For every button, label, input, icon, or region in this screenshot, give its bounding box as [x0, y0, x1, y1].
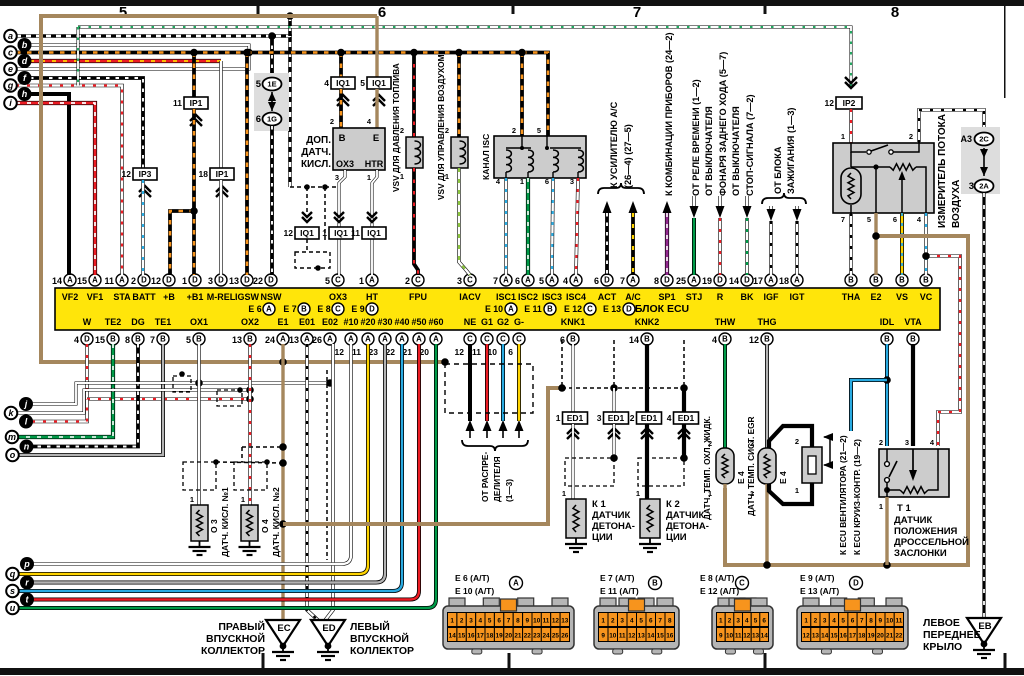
svg-text:КРЫЛО: КРЫЛО	[923, 641, 962, 653]
distributor brace	[462, 440, 528, 451]
svg-text:1: 1	[795, 486, 799, 495]
svg-text:C: C	[500, 335, 506, 344]
splice 3 ED1	[604, 412, 629, 424]
svg-text:VTA: VTA	[904, 317, 922, 327]
svg-text:КОЛЛЕКТОР: КОЛЛЕКТОР	[201, 645, 265, 657]
svg-text:4: 4	[930, 438, 935, 447]
svg-text:#60: #60	[428, 317, 443, 327]
W wire white-red	[85, 344, 89, 399]
svg-text:17: 17	[477, 633, 485, 640]
splice 12 IP3 on BATT wire	[133, 168, 157, 180]
svg-text:13: 13	[752, 633, 760, 640]
svg-text:A: A	[513, 579, 519, 588]
svg-text:15: 15	[657, 633, 665, 640]
svg-text:A: A	[549, 276, 555, 285]
svg-text:2: 2	[909, 132, 913, 141]
pin STJ top	[688, 274, 700, 286]
page frame top rule	[0, 0, 1024, 6]
svg-text:5: 5	[754, 618, 758, 625]
svg-text:THG: THG	[758, 317, 777, 327]
svg-text:p: p	[23, 559, 30, 569]
svg-text:3: 3	[823, 618, 827, 625]
pin R top	[714, 274, 726, 286]
pin VF2 top	[64, 274, 76, 286]
pin VC top	[920, 274, 932, 286]
svg-text:c: c	[8, 48, 13, 58]
EGR sensor ground brown	[765, 484, 768, 565]
splice 4 IQ1	[339, 53, 343, 78]
pin M-REL top	[215, 274, 227, 286]
svg-text:r: r	[25, 578, 29, 588]
AFM measuring cell	[841, 168, 861, 204]
IGF wire from igniter	[769, 206, 773, 209]
svg-text:ED1: ED1	[678, 413, 695, 423]
svg-text:1: 1	[450, 618, 454, 625]
svg-text:1: 1	[190, 495, 194, 504]
T1 potentiometer	[912, 449, 914, 470]
svg-text:ЛЕВОЕ: ЛЕВОЕ	[923, 617, 960, 629]
connector E 6 (А/Т)/E 10 (А/Т)	[449, 598, 465, 609]
wire i red-white to VF1	[16, 103, 95, 275]
splice 1 ED1	[563, 412, 588, 424]
KNK2 drain wire	[682, 388, 686, 412]
svg-text:1: 1	[562, 489, 566, 498]
TE2 wire to m	[18, 344, 113, 437]
OX1 wire down to O3 sensor	[197, 344, 201, 505]
svg-text:7: 7	[841, 215, 845, 224]
svg-text:12: 12	[151, 276, 161, 286]
svg-text:B: B	[110, 335, 116, 344]
svg-text:E 9 (А/Т): E 9 (А/Т)	[800, 573, 835, 583]
svg-text:ЗАСЛОНКИ: ЗАСЛОНКИ	[894, 548, 947, 559]
DG wire to n	[33, 344, 138, 447]
svg-text:G1: G1	[481, 317, 493, 327]
svg-text:5: 5	[639, 618, 643, 625]
svg-text:К 1: К 1	[592, 499, 606, 510]
svg-text:22: 22	[524, 633, 532, 640]
brown bus left loop	[41, 16, 445, 362]
wire h black to VF2	[31, 94, 69, 275]
svg-text:Т 1: Т 1	[897, 503, 911, 514]
svg-text:E 12 (А/Т): E 12 (А/Т)	[700, 586, 739, 596]
pin FPU top	[412, 274, 424, 286]
brown bus lower	[283, 388, 562, 524]
svg-text:#40: #40	[394, 317, 409, 327]
K1 shield dashed box	[565, 458, 614, 486]
svg-text:#50: #50	[411, 317, 426, 327]
node p	[20, 557, 34, 571]
node s	[6, 585, 19, 598]
splice 4 ED1	[674, 412, 699, 424]
svg-text:+B: +B	[163, 292, 175, 302]
svg-text:FPU: FPU	[409, 292, 427, 302]
svg-text:A: A	[365, 335, 371, 344]
injector wire #30	[33, 344, 385, 583]
svg-text:ДАТЧ. КИСЛ. №1: ДАТЧ. КИСЛ. №1	[220, 487, 230, 557]
svg-text:A: A	[266, 305, 272, 314]
svg-text:7: 7	[493, 276, 498, 286]
svg-text:VF1: VF1	[87, 292, 104, 302]
svg-text:11: 11	[619, 633, 626, 640]
ECU block band	[55, 288, 940, 330]
svg-text:23: 23	[533, 633, 541, 640]
svg-text:E 6: E 6	[248, 304, 261, 314]
svg-text:E 13 (А/Т): E 13 (А/Т)	[800, 586, 839, 596]
ground EC right intake manifold	[266, 620, 300, 646]
svg-text:5: 5	[360, 78, 365, 88]
svg-text:1: 1	[322, 228, 327, 238]
green dotted stub down-left	[77, 27, 80, 86]
label K USILITELYU A/C	[598, 183, 644, 194]
svg-text:ED1: ED1	[567, 413, 584, 423]
pin ISC4 top	[570, 274, 582, 286]
svg-text:D: D	[744, 276, 750, 285]
T1 ground wire brown	[885, 497, 888, 565]
svg-text:2: 2	[405, 276, 410, 286]
svg-text:A: A	[119, 276, 125, 285]
shield dashes over OX3	[290, 186, 338, 188]
svg-text:B: B	[899, 276, 905, 285]
svg-text:D: D	[192, 276, 198, 285]
svg-text:D: D	[626, 305, 632, 314]
svg-text:14: 14	[449, 633, 457, 640]
svg-text:OX1: OX1	[190, 317, 208, 327]
splice 11 IQ1	[367, 217, 377, 222]
pin HT top	[366, 274, 378, 286]
pin BK top	[741, 274, 753, 286]
G1 wire from distributor	[485, 344, 489, 421]
coolant temp sensor	[716, 448, 734, 484]
svg-text:ДОП.: ДОП.	[306, 135, 331, 146]
pin SP1 top	[661, 274, 673, 286]
right margin rule	[1004, 6, 1006, 98]
OX2 wire down to O4 sensor	[248, 344, 252, 505]
svg-text:6: 6	[545, 177, 549, 186]
node r	[20, 576, 34, 590]
svg-text:12: 12	[749, 335, 759, 345]
svg-text:E 4: E 4	[778, 471, 788, 484]
svg-text:11: 11	[472, 347, 481, 357]
svg-text:E 10: E 10	[485, 304, 503, 314]
ISC2 wire	[526, 178, 530, 275]
svg-text:B: B	[547, 305, 553, 314]
svg-text:A: A	[382, 335, 388, 344]
svg-text:КИСЛ.: КИСЛ.	[301, 159, 331, 170]
svg-text:2: 2	[814, 618, 818, 625]
E01 wire to ED ground	[307, 344, 321, 623]
svg-text:OX2: OX2	[241, 317, 259, 327]
shield dashed rail knock sensors	[562, 387, 684, 389]
svg-text:2: 2	[728, 618, 732, 625]
node d	[18, 54, 32, 68]
junction brown/E1	[279, 358, 287, 366]
EGR temp sensor	[758, 448, 776, 484]
svg-text:IP1: IP1	[216, 169, 229, 179]
svg-text:A: A	[768, 276, 774, 285]
svg-text:22: 22	[253, 276, 263, 286]
svg-text:10: 10	[533, 618, 541, 625]
svg-text:5: 5	[186, 335, 191, 345]
svg-text:TE2: TE2	[105, 317, 122, 327]
svg-text:5: 5	[119, 4, 127, 21]
svg-text:ВПУСКНОЙ: ВПУСКНОЙ	[350, 632, 409, 645]
svg-text:14: 14	[629, 335, 639, 345]
svg-text:7: 7	[633, 4, 641, 21]
node k	[5, 407, 18, 420]
wire g white-red to STA	[16, 86, 122, 276]
svg-text:E 4: E 4	[736, 471, 746, 484]
svg-text:ДРОССЕЛЬНОЙ: ДРОССЕЛЬНОЙ	[894, 536, 969, 548]
pin IGSW top	[241, 274, 253, 286]
svg-text:8: 8	[516, 618, 520, 625]
svg-text:12: 12	[825, 98, 835, 108]
svg-text:OX3: OX3	[329, 292, 347, 302]
svg-text:А3: А3	[960, 134, 972, 144]
svg-text:IACV: IACV	[459, 292, 481, 302]
svg-text:12: 12	[552, 618, 560, 625]
svg-text:A: A	[369, 276, 375, 285]
svg-text:К КОМБИНАЦИИ ПРИБОРОВ (24—2): К КОМБИНАЦИИ ПРИБОРОВ (24—2)	[664, 32, 674, 196]
svg-text:+B1: +B1	[187, 292, 204, 302]
svg-text:13: 13	[812, 633, 820, 640]
svg-text:12: 12	[284, 228, 294, 238]
wire j white to OX1/E02	[32, 383, 330, 404]
svg-text:VSV ДЛЯ УПРАВЛЕНИЯ ВОЗДУХОМ: VSV ДЛЯ УПРАВЛЕНИЯ ВОЗДУХОМ	[436, 54, 446, 200]
svg-text:m: m	[8, 432, 16, 442]
pin OX3 top	[332, 274, 344, 286]
svg-text:11: 11	[351, 228, 360, 238]
svg-text:21: 21	[514, 633, 522, 640]
svg-text:NE: NE	[464, 317, 477, 327]
svg-text:C: C	[415, 276, 421, 285]
svg-text:B: B	[764, 335, 770, 344]
svg-text:11: 11	[352, 347, 361, 357]
svg-text:6: 6	[497, 618, 501, 625]
pin ISC1 top	[500, 274, 512, 286]
pin IGF top	[765, 274, 777, 286]
svg-text:12: 12	[122, 169, 132, 179]
VTA wire black	[911, 344, 915, 446]
VSV fuel pressure valve	[412, 53, 416, 138]
svg-text:KNK2: KNK2	[635, 317, 660, 327]
svg-text:IQ1: IQ1	[336, 78, 350, 88]
air flow meter box	[833, 143, 934, 213]
svg-text:К 2: К 2	[666, 499, 680, 510]
svg-text:10: 10	[726, 633, 734, 640]
distributor shield dashed box	[445, 364, 533, 413]
svg-text:ВОЗДУХА: ВОЗДУХА	[951, 180, 962, 228]
svg-text:E 9: E 9	[351, 304, 364, 314]
svg-text:1: 1	[719, 618, 723, 625]
svg-text:A: A	[92, 276, 98, 285]
svg-text:14: 14	[821, 633, 829, 640]
svg-text:2C: 2C	[979, 135, 989, 144]
section tick top 7/8	[764, 6, 767, 14]
svg-text:12: 12	[455, 347, 465, 357]
svg-text:22: 22	[895, 633, 903, 640]
wire k white to OX2	[17, 390, 250, 413]
svg-text:9: 9	[879, 618, 883, 625]
svg-text:B: B	[884, 335, 890, 344]
svg-text:E 7 (А/Т): E 7 (А/Т)	[600, 573, 635, 583]
svg-text:6: 6	[508, 347, 513, 357]
AFM pin 2 wire to 2C connector	[919, 110, 984, 143]
IACV wire	[459, 168, 470, 275]
junction brown end at distributor box	[441, 358, 449, 366]
svg-text:B: B	[301, 305, 307, 314]
E1 brown wire to EC ground	[281, 344, 284, 620]
svg-text:C: C	[587, 305, 593, 314]
page frame bottom rule	[0, 668, 1024, 675]
svg-text:18: 18	[858, 633, 866, 640]
connector A3 2C / 3 2A	[961, 127, 1000, 194]
EGR check connector E4 loop bottom	[769, 483, 812, 504]
svg-text:ВПУСКНОЙ: ВПУСКНОЙ	[206, 632, 265, 645]
svg-text:15: 15	[458, 633, 466, 640]
svg-text:4: 4	[479, 618, 483, 625]
section tick top 6/7	[512, 6, 515, 14]
G- wire from distributor	[517, 344, 521, 421]
svg-text:A: A	[416, 335, 422, 344]
svg-text:C: C	[335, 276, 341, 285]
wire a black-white dashed shield bus	[16, 36, 290, 187]
distributor arrow	[466, 420, 475, 431]
svg-text:A: A	[794, 276, 800, 285]
svg-text:8: 8	[869, 618, 873, 625]
node b	[18, 38, 32, 52]
svg-text:IP1: IP1	[190, 98, 203, 108]
TE1 wire to o	[19, 344, 163, 455]
svg-text:17: 17	[753, 276, 763, 286]
svg-text:2: 2	[879, 438, 883, 447]
svg-text:КОЛЛЕКТОР: КОЛЛЕКТОР	[350, 645, 414, 657]
section tick bottom 3	[764, 653, 767, 668]
svg-text:B: B	[848, 276, 854, 285]
svg-text:6: 6	[893, 215, 897, 224]
section tick bottom 4	[1004, 653, 1007, 668]
svg-text:12: 12	[743, 633, 751, 640]
svg-text:D: D	[853, 579, 859, 588]
svg-text:B: B	[910, 335, 916, 344]
ground wire to left front fender	[982, 193, 985, 618]
svg-text:10: 10	[609, 633, 617, 640]
svg-text:11: 11	[896, 618, 903, 625]
svg-text:13: 13	[289, 335, 299, 345]
svg-text:STA: STA	[113, 292, 131, 302]
svg-text:IQ1: IQ1	[300, 228, 314, 238]
svg-text:20: 20	[505, 633, 513, 640]
SP1 wire to instrument cluster	[663, 201, 672, 213]
pin ACT top	[601, 274, 613, 286]
svg-text:СТОП-СИГНАЛА (7—2): СТОП-СИГНАЛА (7—2)	[745, 94, 755, 196]
svg-text:ОТ РЕЛЕ ВРЕМЕНИ (1—2): ОТ РЕЛЕ ВРЕМЕНИ (1—2)	[691, 79, 701, 196]
svg-text:ОТ ВЫКЛЮЧАТЕЛЯ: ОТ ВЫКЛЮЧАТЕЛЯ	[704, 106, 714, 196]
svg-text:ISC1: ISC1	[496, 292, 516, 302]
THA wire	[849, 213, 853, 275]
svg-text:D: D	[166, 276, 172, 285]
svg-text:1E: 1E	[267, 80, 276, 89]
VC branch to throttle sensor	[926, 256, 960, 446]
svg-text:4: 4	[324, 78, 329, 88]
svg-text:9: 9	[526, 618, 530, 625]
svg-text:6: 6	[515, 276, 520, 286]
svg-text:ОТ ВЫКЛЮЧАТЕЛЯ: ОТ ВЫКЛЮЧАТЕЛЯ	[731, 106, 741, 196]
svg-text:3: 3	[208, 276, 213, 286]
svg-text:ДАТЧ.: ДАТЧ.	[301, 147, 331, 158]
THW sensor ground brown	[723, 484, 726, 565]
KNK2 wire	[645, 344, 649, 412]
splice 1 IQ1	[334, 217, 344, 222]
svg-text:3: 3	[457, 276, 462, 286]
svg-text:M-REL: M-REL	[207, 292, 236, 302]
svg-text:К УСИЛИТЕЛЮ А/С: К УСИЛИТЕЛЮ А/С	[609, 101, 619, 188]
svg-text:EC: EC	[277, 623, 290, 634]
svg-text:ACT: ACT	[598, 292, 617, 302]
IGT wire from igniter	[795, 206, 799, 209]
svg-text:E 8 (А/Т): E 8 (А/Т)	[700, 573, 735, 583]
O4 sensor shield box	[234, 462, 267, 490]
svg-text:BATT: BATT	[132, 292, 156, 302]
svg-text:16: 16	[666, 633, 674, 640]
svg-text:ФОНАРЯ ЗАДНЕГО ХОДА (5—7): ФОНАРЯ ЗАДНЕГО ХОДА (5—7)	[718, 52, 728, 196]
svg-text:4: 4	[74, 335, 79, 345]
svg-text:1: 1	[520, 177, 524, 186]
svg-text:ОТ БЛОКА: ОТ БЛОКА	[773, 146, 783, 194]
svg-text:E 12: E 12	[564, 304, 582, 314]
svg-text:3: 3	[570, 177, 574, 186]
svg-text:7: 7	[860, 618, 864, 625]
svg-text:IQ1: IQ1	[367, 228, 381, 238]
svg-text:A: A	[508, 305, 514, 314]
svg-text:7: 7	[507, 618, 511, 625]
injector wire #60	[18, 344, 436, 608]
svg-text:10: 10	[886, 618, 894, 625]
svg-text:C: C	[516, 335, 522, 344]
O3 sensor shield box	[183, 462, 216, 490]
section tick bottom 2	[508, 653, 511, 668]
AFM switch contacts	[851, 143, 919, 152]
svg-text:9: 9	[601, 633, 605, 640]
svg-text:G-: G-	[514, 317, 524, 327]
svg-text:15: 15	[77, 276, 87, 286]
node m	[6, 431, 19, 444]
svg-text:E02: E02	[322, 317, 338, 327]
svg-text:18: 18	[199, 169, 209, 179]
svg-text:THW: THW	[715, 317, 736, 327]
svg-text:B: B	[652, 579, 658, 588]
svg-text:C: C	[739, 579, 745, 588]
svg-text:ЛЕВЫЙ: ЛЕВЫЙ	[350, 620, 390, 633]
svg-text:КАНАЛ ISC: КАНАЛ ISC	[481, 134, 491, 180]
svg-text:j: j	[24, 399, 28, 409]
svg-text:E 7: E 7	[283, 304, 296, 314]
svg-text:B: B	[873, 276, 879, 285]
svg-text:d: d	[22, 56, 28, 66]
svg-text:OX3: OX3	[336, 159, 354, 169]
E4 pin arrows	[824, 437, 830, 465]
svg-text:ДАТЧИК: ДАТЧИК	[894, 515, 932, 526]
svg-text:1: 1	[556, 413, 561, 423]
svg-text:7: 7	[620, 276, 625, 286]
svg-text:B: B	[247, 335, 253, 344]
svg-text:15: 15	[830, 633, 838, 640]
node h	[18, 87, 32, 101]
svg-text:ЦИИ: ЦИИ	[592, 532, 613, 543]
G2 wire from distributor	[501, 344, 505, 421]
svg-text:A: A	[573, 276, 579, 285]
OX3 signal wire	[339, 170, 345, 275]
svg-text:2: 2	[795, 437, 799, 446]
